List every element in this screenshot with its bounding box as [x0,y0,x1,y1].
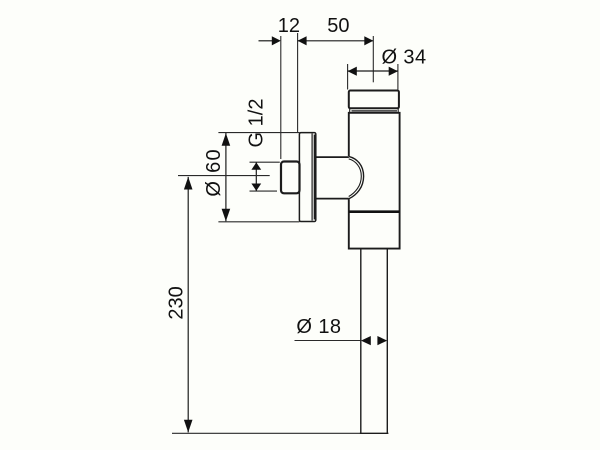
center axis line to cap [372,36,374,82]
svg-text:230: 230 [165,286,187,319]
svg-text:12: 12 [278,15,300,37]
dimension Ø60: line with arrows [225,133,227,221]
valve body [349,113,400,249]
ring under cap [352,110,398,112]
connector tube [316,157,349,199]
wall flange [299,133,315,222]
separator line on body [349,210,399,213]
dimension G 1/2: double arrow [255,162,257,191]
dimension 230: line with arrows [187,177,189,433]
dimension 230: extension lines [178,175,270,177]
dimension Ø60: extension lines [218,132,299,134]
dimension G 1/2: extension lines [250,161,280,163]
svg-text:Ø 60: Ø 60 [203,148,225,197]
dimension 12: left extension line [280,36,282,159]
dimension Ø34: line with arrows [348,70,398,72]
svg-text:Ø 18: Ø 18 [296,316,341,338]
dimension Ø18: arrows [361,336,371,345]
dimension 50: line with arrows [298,40,374,42]
dimension Ø34: extension lines [347,64,349,90]
svg-text:Ø 34: Ø 34 [382,46,427,68]
dimension Ø18: leader line [295,340,361,342]
dimension 12: right extension line [297,33,299,133]
union nut [281,162,300,194]
svg-text:50: 50 [327,15,349,37]
dimension 12: left arrow + tail [259,40,274,42]
dome (inlet cone) [349,156,364,199]
outlet pipe [361,249,388,433]
svg-text:G 1/2: G 1/2 [245,99,267,148]
cap (push button housing) [349,91,399,109]
pipe bottom edge [360,432,389,434]
